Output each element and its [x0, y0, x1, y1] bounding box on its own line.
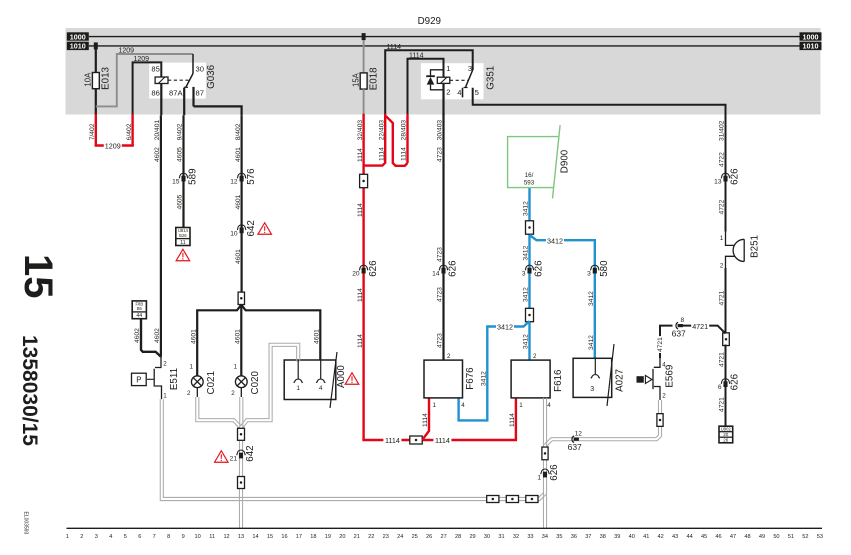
svg-text:1000: 1000	[70, 32, 86, 41]
svg-text:4721: 4721	[692, 322, 708, 331]
lamp unit A027 internal stub	[594, 358, 596, 374]
svg-text:1114: 1114	[357, 288, 364, 302]
wire 8/402 / 4601 column	[241, 115, 243, 292]
svg-text:7/402: 7/402	[89, 123, 96, 140]
wire 3412 branch to 580/A027	[530, 235, 595, 360]
svg-text:4: 4	[319, 385, 323, 392]
svg-text:30/403: 30/403	[437, 120, 444, 141]
svg-text:P: P	[136, 375, 141, 384]
relay G036 coil	[155, 77, 168, 84]
wire 28/403 red riser	[406, 114, 408, 163]
svg-text:626: 626	[448, 260, 459, 277]
svg-text:3412: 3412	[523, 334, 530, 349]
svg-text:3412: 3412	[523, 245, 530, 260]
wire 3412 branch to F676 pin 4	[459, 321, 530, 420]
relay G036 dashed link	[168, 79, 189, 81]
screened wire from C020 pin 2	[240, 388, 242, 397]
junction dot on bus 1010	[94, 42, 98, 49]
svg-text:46: 46	[715, 534, 721, 540]
connector 626 pin 1	[541, 469, 550, 474]
screened wire trunk x240 down to rail	[238, 427, 240, 528]
svg-text:1: 1	[720, 235, 724, 242]
svg-text:17: 17	[296, 534, 302, 540]
switch E511 actuator link	[147, 378, 154, 380]
svg-text:44: 44	[136, 313, 142, 319]
relay G351 coil to pin 2 wire	[442, 83, 444, 115]
connector 576 pin 12	[237, 173, 246, 178]
inline connector on 3412 upper	[526, 221, 534, 234]
switch E569 pin 2 stub	[659, 394, 661, 401]
wire 7/402 red below band	[95, 114, 97, 146]
connector 626 pin 14	[439, 265, 448, 270]
svg-text:1: 1	[446, 64, 450, 73]
inline connector on 1114 horizontal	[410, 436, 422, 444]
svg-text:F616: F616	[553, 369, 564, 392]
relay G036 coil to pin 86 wire	[160, 84, 162, 116]
svg-text:3412: 3412	[523, 201, 530, 216]
svg-text:51: 51	[788, 534, 794, 540]
svg-text:1114: 1114	[409, 52, 424, 59]
svg-text:10A: 10A	[84, 72, 93, 87]
bus tag 1000 right	[800, 32, 822, 40]
svg-text:EL003593: EL003593	[23, 512, 29, 535]
svg-text:28/403: 28/403	[401, 120, 408, 141]
relay G351 white background	[421, 63, 484, 99]
svg-text:16/: 16/	[525, 172, 534, 179]
wire red parallel jumper 22/403 to 28/403	[386, 116, 408, 166]
svg-text:4722: 4722	[719, 152, 726, 167]
svg-text:32: 32	[513, 534, 519, 540]
svg-text:53: 53	[817, 534, 823, 540]
wire 6/402 red below band	[131, 114, 133, 146]
svg-text:87: 87	[196, 89, 204, 98]
svg-text:7: 7	[153, 534, 156, 540]
svg-text:18: 18	[310, 534, 316, 540]
connector 589 pin 15	[179, 173, 188, 178]
wire 1114 lower: riser 28/403 to G351 pin 1	[408, 59, 444, 115]
svg-text:4601: 4601	[314, 329, 321, 344]
svg-text:1209: 1209	[105, 142, 121, 151]
svg-text:4721: 4721	[657, 337, 664, 352]
svg-text:9/402: 9/402	[177, 123, 184, 140]
relay G351 blade tip tick	[464, 87, 468, 89]
svg-text:4601: 4601	[235, 329, 242, 344]
svg-text:3412: 3412	[481, 371, 488, 386]
svg-text:24: 24	[397, 534, 403, 540]
label 1209 red jumper	[104, 141, 122, 149]
screened wire from E511 pin 1 to bottom rail	[163, 399, 241, 497]
svg-text:4601: 4601	[190, 329, 197, 344]
svg-text:1114: 1114	[387, 44, 402, 51]
svg-text:E018: E018	[368, 67, 379, 90]
svg-text:1010: 1010	[70, 42, 86, 51]
svg-text:12: 12	[230, 179, 238, 186]
inline connector on 4721	[723, 333, 730, 346]
connector 637 pin 12	[572, 436, 574, 443]
svg-text:12: 12	[223, 534, 229, 540]
svg-text:B5: B5	[137, 306, 143, 311]
svg-text:20: 20	[339, 534, 345, 540]
svg-text:4: 4	[457, 88, 461, 97]
svg-text:15A: 15A	[351, 72, 360, 87]
svg-text:1: 1	[234, 363, 238, 370]
svg-text:F676: F676	[465, 367, 476, 390]
horn B251 body	[733, 239, 744, 261]
svg-text:15: 15	[16, 254, 60, 299]
svg-text:2: 2	[533, 353, 537, 360]
relay G351 diode triangle	[427, 77, 435, 85]
svg-text:1010: 1010	[803, 42, 819, 51]
lamp C020	[235, 376, 247, 388]
svg-text:12: 12	[575, 431, 583, 438]
svg-text:1: 1	[296, 385, 300, 392]
svg-text:626: 626	[368, 260, 379, 277]
warning triangle right of A000	[345, 373, 359, 385]
horn B251 pin 1 stub	[726, 231, 735, 245]
svg-text:29: 29	[469, 534, 475, 540]
module F676 box	[424, 360, 463, 398]
switch E569 actuator triangle	[645, 375, 652, 383]
svg-text:4602: 4602	[154, 328, 161, 343]
svg-text:1: 1	[519, 402, 523, 409]
relay G351 diode top link	[431, 70, 444, 76]
svg-text:B26: B26	[179, 233, 187, 238]
svg-text:1114: 1114	[357, 148, 364, 162]
svg-text:2: 2	[446, 88, 450, 97]
label 3412 branch horizontal	[546, 236, 564, 244]
warning triangle below ref box	[176, 249, 190, 261]
svg-text:31: 31	[498, 534, 504, 540]
module F616 box	[511, 360, 550, 398]
svg-text:22: 22	[368, 534, 374, 540]
svg-text:11: 11	[180, 240, 185, 246]
inline connector on red 1114	[360, 174, 368, 187]
svg-text:3: 3	[95, 534, 98, 540]
svg-text:D900: D900	[559, 149, 570, 173]
svg-text:626: 626	[730, 373, 741, 390]
svg-text:41: 41	[643, 534, 649, 540]
svg-text:G036: G036	[206, 64, 217, 89]
wire G036 pin 87 to riser 8/402	[194, 106, 242, 115]
svg-text:48: 48	[744, 534, 750, 540]
svg-text:4723: 4723	[437, 333, 444, 348]
screened wire from A000 pin 1	[243, 346, 297, 428]
svg-text:38: 38	[600, 534, 606, 540]
reference box B5/44 on wire 4602	[132, 301, 146, 319]
svg-text:39: 39	[614, 534, 620, 540]
svg-text:37: 37	[585, 534, 591, 540]
svg-text:576: 576	[246, 168, 257, 185]
bus tag 1010 left	[67, 42, 89, 50]
svg-text:50: 50	[773, 534, 779, 540]
connector 626 pin 6	[721, 379, 730, 384]
svg-text:1209: 1209	[119, 48, 135, 55]
connector 580 pin 3	[590, 265, 599, 270]
svg-text:U902: U902	[721, 427, 732, 432]
switch E569 actuator square	[637, 376, 644, 383]
grid ruler line	[67, 527, 823, 529]
svg-text:6: 6	[138, 534, 141, 540]
wire 1209 gray: E013 to relay G036 pin 30	[96, 54, 193, 106]
wire 4721 to 626 pin 6 and ref box	[725, 345, 727, 427]
screened wire E569 pin 2 to trunk x544	[546, 400, 661, 447]
svg-text:5: 5	[475, 88, 479, 97]
wire from bus 1000 to fuse E018 (gray)	[363, 37, 365, 73]
svg-text:43: 43	[672, 534, 678, 540]
svg-text:E511: E511	[169, 368, 180, 390]
svg-text:3412: 3412	[547, 236, 563, 245]
svg-text:35: 35	[556, 534, 562, 540]
wire fuse E013 output down to band edge	[95, 89, 97, 116]
svg-text:626: 626	[549, 464, 560, 481]
svg-text:D929: D929	[418, 16, 441, 27]
wire 4721 branch to switch E569	[660, 326, 673, 358]
relay G351 diode cathode bar	[426, 75, 435, 77]
switch E511 blade	[153, 369, 155, 387]
connector 637 pin 8	[676, 322, 678, 329]
unit D900 slash	[553, 125, 561, 198]
svg-text:3: 3	[522, 271, 526, 278]
relay G351 pin 5 post and wire to right riser	[473, 88, 726, 115]
svg-text:4721: 4721	[719, 352, 726, 367]
svg-text:6: 6	[718, 384, 722, 391]
svg-text:13: 13	[714, 179, 722, 186]
svg-text:4602: 4602	[134, 328, 141, 343]
svg-text:E013: E013	[101, 66, 112, 89]
svg-text:580: 580	[599, 260, 610, 277]
svg-text:1114: 1114	[509, 413, 516, 427]
svg-text:10: 10	[230, 230, 238, 237]
svg-text:14: 14	[432, 271, 440, 278]
switch E569 blade	[652, 369, 654, 389]
screened wire F616 pin 4 down	[546, 398, 548, 528]
svg-text:1: 1	[537, 475, 541, 482]
relay G036 pin 87 post	[192, 87, 194, 107]
svg-text:4: 4	[547, 402, 551, 409]
inline connector on E569 screened wire	[657, 414, 663, 427]
svg-text:13: 13	[238, 534, 244, 540]
svg-text:42: 42	[658, 534, 664, 540]
switch E569 top hook	[654, 358, 660, 367]
wire 22/403 red riser	[364, 114, 386, 166]
fuse E018	[360, 73, 367, 89]
wire 4601 to C020	[240, 327, 242, 376]
svg-text:642: 642	[246, 220, 257, 236]
wire fuse E018 output down (gray)	[363, 89, 365, 115]
svg-text:593: 593	[524, 179, 535, 186]
svg-text:33: 33	[527, 534, 533, 540]
svg-text:642: 642	[245, 445, 256, 461]
lamp unit A027 socket arc	[591, 375, 600, 379]
svg-text:44: 44	[686, 534, 692, 540]
power supply shaded band	[66, 28, 821, 115]
svg-text:626: 626	[730, 168, 741, 185]
svg-text:34: 34	[542, 534, 548, 540]
bus tag 1010 right	[800, 42, 822, 50]
relay G036 white background	[149, 63, 206, 99]
svg-text:B251: B251	[750, 235, 761, 258]
svg-text:20: 20	[352, 271, 360, 278]
relay G036 switch blade	[186, 74, 193, 88]
svg-text:1114: 1114	[357, 334, 364, 348]
switch E511 top hook	[155, 357, 161, 368]
bus wire 1000	[89, 36, 801, 38]
wire 20/401 / 4602 main column	[160, 115, 162, 357]
wire red F676 pin 1 drop	[422, 398, 429, 440]
svg-text:30: 30	[484, 534, 490, 540]
svg-text:86: 86	[151, 89, 159, 98]
screened wire from C021 pin 2	[196, 388, 198, 397]
svg-text:589: 589	[188, 168, 199, 184]
svg-text:G351: G351	[485, 66, 496, 90]
wire 4721 column below B251	[725, 268, 727, 334]
lamp unit A000 stub pin 1	[297, 360, 299, 379]
svg-text:C021: C021	[206, 371, 217, 394]
svg-text:2: 2	[231, 390, 235, 397]
switch E511 P box	[132, 373, 147, 385]
svg-text:87A: 87A	[169, 89, 183, 98]
svg-text:C020: C020	[250, 371, 261, 395]
svg-text:4721: 4721	[719, 290, 726, 305]
relay G351 coil	[437, 77, 450, 83]
lamp unit A027 slash	[607, 344, 614, 406]
relay G351 dashed link	[450, 79, 468, 81]
svg-text:1114: 1114	[385, 436, 400, 445]
svg-text:26: 26	[723, 438, 729, 443]
svg-text:5: 5	[124, 534, 127, 540]
svg-text:4601: 4601	[235, 147, 242, 162]
svg-text:19: 19	[325, 534, 331, 540]
svg-text:14: 14	[252, 534, 258, 540]
svg-text:15: 15	[267, 534, 273, 540]
svg-text:11: 11	[209, 534, 215, 540]
svg-text:626: 626	[534, 260, 545, 277]
svg-text:1000: 1000	[803, 32, 819, 41]
svg-text:3412: 3412	[588, 335, 595, 350]
connector 626 pin 13	[721, 173, 730, 178]
lamp unit A000 slash	[330, 352, 337, 408]
label 1114 bh1	[383, 436, 401, 444]
svg-text:45: 45	[701, 534, 707, 540]
lamp unit A000 stub pin 4	[320, 360, 322, 379]
lamp unit A000 box	[284, 360, 336, 400]
svg-text:28: 28	[455, 534, 461, 540]
splice box on wire 4601	[238, 292, 244, 304]
svg-text:26: 26	[426, 534, 432, 540]
svg-text:30: 30	[196, 64, 204, 73]
fuse E013	[92, 73, 99, 89]
svg-text:47: 47	[730, 534, 736, 540]
svg-text:3: 3	[587, 271, 591, 278]
wire 4601 to C021	[196, 327, 198, 376]
lamp C021	[191, 376, 203, 388]
svg-text:4723: 4723	[437, 247, 444, 262]
label 1114 bh2	[433, 436, 451, 444]
svg-text:2: 2	[163, 360, 167, 367]
screened wire bottom rail right part	[241, 492, 544, 497]
svg-text:1114: 1114	[435, 436, 450, 445]
svg-text:8/402: 8/402	[235, 123, 242, 140]
svg-text:4: 4	[109, 534, 112, 540]
svg-text:4602: 4602	[154, 147, 161, 162]
svg-text:4721: 4721	[719, 397, 726, 412]
wire 30/403 / 4723 column	[442, 114, 444, 360]
svg-text:4723: 4723	[437, 287, 444, 302]
svg-text:4722: 4722	[719, 199, 726, 214]
wire 1209 red jumper	[96, 144, 133, 145]
svg-text:52: 52	[802, 534, 808, 540]
inline connectors on bottom rail	[487, 496, 499, 503]
svg-text:1358030/15: 1358030/15	[18, 335, 41, 446]
svg-text:9: 9	[182, 534, 185, 540]
svg-text:637: 637	[568, 442, 582, 452]
switch E569 bottom hook	[654, 387, 660, 394]
unit D900 green box	[508, 137, 558, 188]
wire from bus 1010 to fuse E013	[95, 46, 97, 73]
junction dot on bus 1000	[362, 33, 366, 40]
bus tag 1000 left	[67, 32, 89, 40]
relay G036 pin 87A wire down	[183, 88, 185, 115]
relay G036 blade tip tick	[184, 86, 188, 88]
svg-text:23: 23	[383, 534, 389, 540]
inline connector on trunk lower	[238, 477, 245, 489]
svg-text:3: 3	[590, 386, 594, 393]
svg-text:4601: 4601	[235, 249, 242, 264]
svg-text:3412: 3412	[497, 323, 513, 332]
svg-text:1: 1	[163, 392, 167, 399]
svg-text:1114: 1114	[357, 203, 364, 217]
svg-text:21: 21	[354, 534, 360, 540]
svg-text:21: 21	[230, 456, 238, 463]
svg-text:10: 10	[195, 534, 201, 540]
reference box B26/11 on wire 4605	[176, 228, 190, 246]
svg-text:1114: 1114	[378, 147, 385, 161]
svg-text:20/401: 20/401	[154, 120, 161, 141]
svg-text:4601: 4601	[235, 194, 242, 209]
svg-text:20: 20	[723, 432, 729, 437]
svg-text:4605: 4605	[177, 147, 184, 162]
svg-text:32/403: 32/403	[357, 120, 364, 141]
svg-text:27: 27	[441, 534, 447, 540]
inline connector on trunk x544	[542, 447, 548, 460]
svg-text:49: 49	[759, 534, 765, 540]
label 4721 horizontal	[691, 321, 709, 329]
relay G351 diode bottom link	[431, 85, 444, 90]
svg-text:2: 2	[80, 534, 83, 540]
label 4721 on E569 branch	[657, 336, 664, 353]
wire 9/402 / 4605 column	[182, 115, 184, 228]
svg-text:16: 16	[281, 534, 287, 540]
label 3412 left horizontal	[496, 322, 514, 330]
svg-text:8: 8	[167, 534, 170, 540]
lamp unit A027 box	[573, 358, 612, 397]
wire 3412 blue from D900	[528, 188, 530, 361]
svg-text:1: 1	[66, 534, 69, 540]
svg-text:6/402: 6/402	[126, 123, 133, 140]
wire 4601 to A000	[319, 327, 321, 360]
svg-text:E569: E569	[665, 365, 676, 388]
svg-text:637: 637	[672, 329, 686, 339]
svg-text:2: 2	[662, 392, 666, 399]
svg-text:36: 36	[571, 534, 577, 540]
svg-text:A027: A027	[614, 369, 625, 392]
svg-text:2: 2	[187, 390, 191, 397]
reference box U902/20/26	[719, 426, 733, 443]
svg-text:3412: 3412	[588, 291, 595, 306]
svg-text:40: 40	[629, 534, 635, 540]
svg-text:22/403: 22/403	[378, 120, 385, 141]
connector 626 pin 3	[525, 265, 534, 270]
